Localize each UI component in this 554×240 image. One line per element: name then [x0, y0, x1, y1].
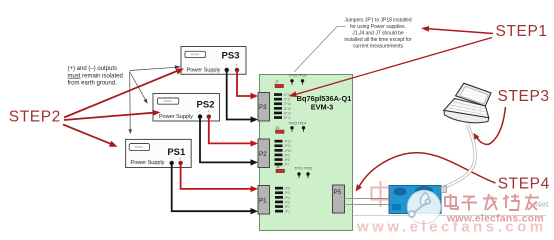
svg-text:(+) and (–) outputs: (+) and (–) outputs [68, 66, 118, 72]
laptop [444, 83, 491, 123]
connector P2 [258, 139, 270, 168]
svg-text:EVM-3: EVM-3 [311, 103, 334, 112]
svg-text:installed all the time except: installed all the time except for [344, 37, 412, 43]
STEP1 arrow to note [429, 29, 494, 34]
svg-text:TPC5 TPC6: TPC5 TPC6 [289, 74, 307, 78]
test points TPC3 TPC4 [289, 121, 307, 132]
svg-text:PS3: PS3 [222, 51, 240, 62]
svg-text:TPC1 TPC2: TPC1 TPC2 [295, 167, 313, 171]
svg-text:JP8: JP8 [284, 158, 290, 162]
leader to PS3 [130, 67, 177, 70]
svg-text:J7: J7 [275, 80, 279, 84]
wire PS2 black [200, 117, 252, 163]
svg-text:JP5: JP5 [285, 191, 291, 195]
connector P1 [258, 186, 270, 215]
svg-text:TPC3 TPC4: TPC3 TPC4 [289, 121, 307, 125]
svg-text:JP1: JP1 [285, 210, 291, 214]
USB cable laptop to box [445, 124, 476, 187]
svg-text:J1: J1 [276, 165, 280, 169]
svg-text:JP9: JP9 [284, 153, 290, 157]
svg-text:STEP4: STEP4 [498, 176, 550, 193]
wire PS1 red [181, 163, 252, 189]
STEP2 arrow to PS3 [64, 71, 177, 118]
wire PS2 red [209, 117, 252, 144]
char zi [462, 197, 478, 211]
power supply PS2 [153, 94, 220, 122]
svg-text:Jumpers JP1 to JP18 installed: Jumpers JP1 to JP18 installed [344, 18, 411, 24]
svg-text:Power Supply: Power Supply [159, 114, 193, 120]
char shao [503, 194, 519, 210]
jumper J1 [276, 165, 285, 173]
svg-text:STEP1: STEP1 [496, 23, 548, 40]
connector P3 [258, 93, 270, 122]
jumper J7 [275, 80, 284, 88]
jumper group JP1-JP6 [275, 187, 290, 214]
svg-text:JP12: JP12 [284, 140, 291, 144]
svg-text:JP11: JP11 [284, 144, 291, 148]
svg-text:STEP3: STEP3 [498, 88, 550, 105]
connector P5 [333, 185, 345, 213]
test points TPC5 TPC6 [289, 74, 307, 85]
STEP3 curved arrow to laptop [477, 107, 506, 144]
svg-text:JP10: JP10 [284, 149, 291, 153]
EVM board [260, 75, 353, 231]
jumper group JP13-JP18 [274, 93, 291, 120]
jumper group JP7-JP12 [275, 140, 292, 167]
svg-text:JP18: JP18 [284, 93, 291, 97]
wire PS1 black [172, 163, 252, 211]
svg-text:Power Supply: Power Supply [131, 160, 165, 166]
svg-text:P1: P1 [259, 198, 267, 205]
leader note to board [294, 27, 346, 73]
svg-text:J4: J4 [276, 126, 280, 130]
cable P5 to USB box [345, 198, 390, 200]
leader to PS2 [130, 72, 146, 100]
watermark chinese row [445, 194, 539, 211]
watermark logo circle [407, 190, 441, 224]
svg-text:Net: Net [535, 199, 549, 209]
svg-text:JP13: JP13 [284, 116, 291, 120]
svg-text:JP17: JP17 [284, 98, 291, 102]
svg-text:JP3: JP3 [285, 200, 291, 204]
wire PS3 red [237, 70, 252, 96]
svg-text:current measurements: current measurements [353, 44, 404, 50]
svg-text:for using Power supplies.: for using Power supplies. [350, 24, 406, 30]
note jumpers text [344, 18, 412, 50]
svg-text:P5: P5 [334, 189, 342, 196]
svg-text:P3: P3 [259, 104, 267, 111]
STEP1 arrow to jumpers [295, 38, 492, 95]
svg-text:JP16: JP16 [284, 102, 291, 106]
svg-text:JP4: JP4 [285, 196, 291, 200]
jumper J4 [276, 126, 285, 134]
svg-text:P2: P2 [259, 151, 267, 158]
svg-text:JP14: JP14 [284, 111, 291, 115]
STEP2 arrow to PS2 [64, 113, 154, 120]
wire PS3 black [227, 70, 252, 120]
svg-text:JP7: JP7 [284, 163, 290, 167]
leader to PS1 [129, 72, 132, 130]
watermark line [353, 215, 546, 217]
svg-text:STEP2: STEP2 [9, 108, 61, 125]
svg-text:from earth ground.: from earth ground. [68, 81, 118, 87]
power supply PS3 [181, 47, 246, 75]
STEP4 curved arrow to P5 [360, 153, 496, 186]
char fa [483, 194, 497, 210]
USB interface box [389, 186, 447, 214]
svg-text:JP15: JP15 [284, 107, 291, 111]
svg-text:J1,J4 and J7 should be: J1,J4 and J7 should be [352, 31, 404, 37]
svg-text:Power Supply: Power Supply [187, 67, 221, 73]
power supply PS1 [126, 139, 192, 167]
svg-text:www.elecfans.com: www.elecfans.com [356, 219, 547, 236]
svg-text:JP2: JP2 [285, 205, 291, 209]
note isolation text [68, 66, 123, 87]
char dian [445, 194, 458, 209]
char you [525, 194, 539, 210]
test points TPC1 TPC2 [295, 167, 313, 179]
watermark char zhong [372, 181, 390, 207]
STEP2 arrow to PS1 [63, 125, 111, 144]
svg-text:JP6: JP6 [285, 187, 291, 191]
